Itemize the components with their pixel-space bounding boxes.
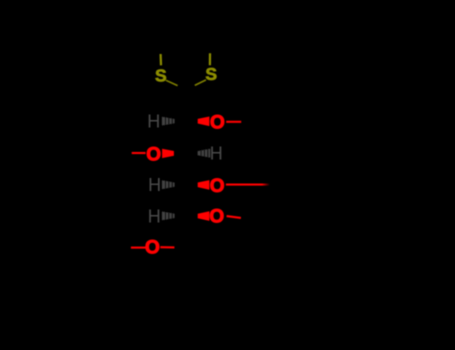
- hash wedge C4 to H: [162, 180, 175, 189]
- hash wedge C2 to H: [162, 117, 175, 126]
- hash wedge C3 to H: [198, 149, 211, 158]
- wire ethyl CH2 to S2 (upper half-bond, S colour): [209, 53, 211, 65]
- svg-text:O: O: [210, 176, 225, 197]
- wire O to benzyl CH2 on C4 (half-bond, O colour, fading end): [226, 184, 270, 186]
- wire S1 to C1 (lower half-bond, S colour): [166, 80, 178, 85]
- wire benzyl CH2 to O on C6 (half-bond, O colour): [131, 247, 146, 249]
- wire O to C6 (half-bond, O colour): [160, 246, 174, 248]
- wire O to benzyl CH2 on C5 (half-bond, O colour): [227, 216, 241, 218]
- svg-text:O: O: [145, 238, 160, 259]
- svg-text:H: H: [210, 144, 223, 164]
- svg-text:H: H: [148, 175, 161, 195]
- svg-text:H: H: [147, 112, 160, 132]
- svg-text:O: O: [209, 207, 224, 228]
- svg-text:O: O: [210, 112, 225, 133]
- solid wedge C4 to O: [198, 180, 210, 190]
- svg-text:H: H: [148, 206, 161, 226]
- wire O to CH3 on C2 (half-bond, O colour): [226, 121, 241, 123]
- svg-text:S: S: [205, 64, 217, 84]
- wire CH3 to O on C3 (half-bond, O colour): [132, 152, 146, 154]
- solid wedge O to C3: [162, 149, 174, 158]
- solid wedge C2 to O: [198, 117, 210, 127]
- solid wedge C5 to O: [198, 211, 210, 221]
- svg-text:O: O: [146, 144, 161, 165]
- wire ethyl CH2 to S1 (upper half-bond, S colour): [160, 54, 163, 65]
- wire S2 to C1 (lower half-bond, S colour): [195, 80, 206, 86]
- hash wedge C5 to H: [162, 212, 175, 221]
- svg-text:S: S: [155, 66, 167, 86]
